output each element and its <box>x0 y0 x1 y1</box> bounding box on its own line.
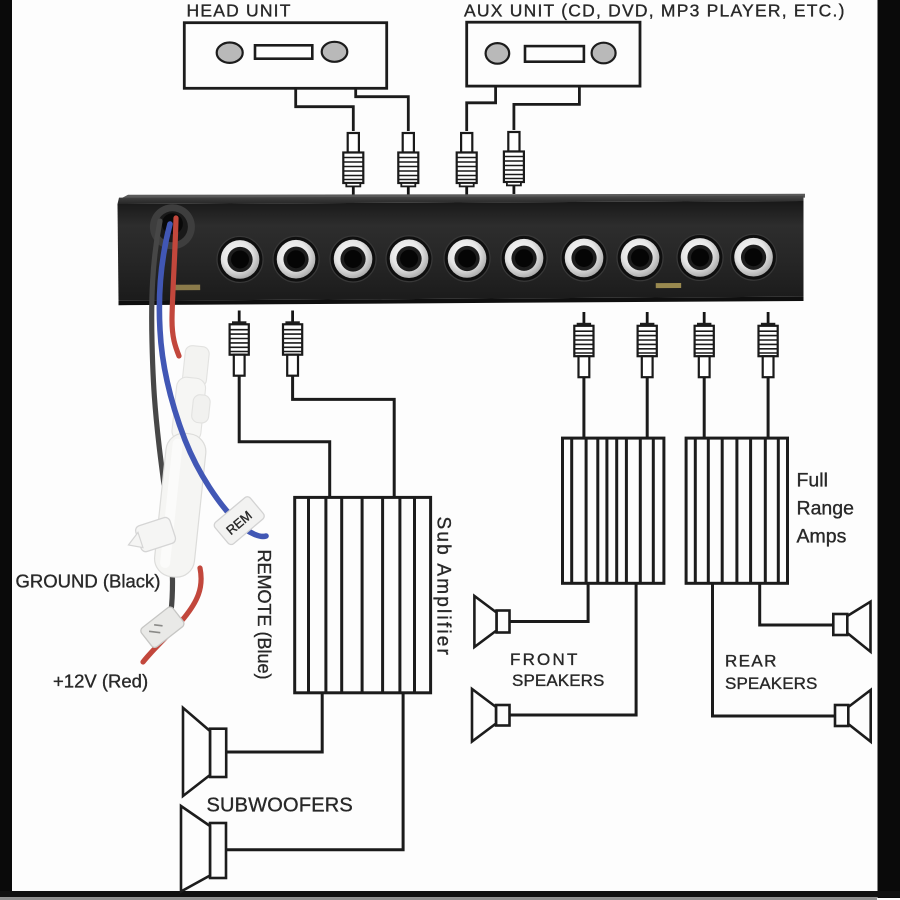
sub amplifier fins <box>309 497 415 692</box>
full range amp R fins <box>695 438 778 583</box>
wire amp R to rear speaker 1 <box>760 583 834 625</box>
wire head-unit to plug P1 <box>296 87 354 131</box>
wire amp R to rear speaker 2 <box>713 583 836 716</box>
RCA plug P5 <box>230 311 249 376</box>
aux unit left knob <box>486 43 510 64</box>
svg-text:HEAD UNIT: HEAD UNIT <box>187 1 292 21</box>
wire sub amp to subwoofer 1 <box>226 693 322 752</box>
RCA plug P6 <box>283 311 302 376</box>
svg-text:REMOTE (Blue): REMOTE (Blue) <box>254 550 274 680</box>
wire plug P8 to full range amp L <box>646 377 649 438</box>
svg-text:SUBWOOFERS: SUBWOOFERS <box>207 795 353 817</box>
RCA plug P1 <box>343 133 363 195</box>
RCA jack J5 <box>444 235 490 281</box>
crimp on +12V wire <box>139 605 185 649</box>
RCA jack J6 <box>501 235 547 281</box>
front speaker 2 <box>472 689 510 742</box>
svg-text:+12V (Red): +12V (Red) <box>53 671 148 692</box>
gold label left <box>173 285 201 291</box>
wire sub amp to subwoofer 2 <box>226 693 403 850</box>
wire head-unit to plug P2 <box>356 87 409 131</box>
head unit slot <box>255 45 312 58</box>
wire plug P9 to full range amp R <box>703 377 706 438</box>
head unit right knob <box>322 42 348 62</box>
wire plug P5 to sub amplifier <box>239 375 330 497</box>
wire plug P10 to full range amp R <box>767 377 770 438</box>
svg-text:REAR: REAR <box>725 652 778 671</box>
front speaker 1 <box>474 596 509 647</box>
rear speaker 1 <box>833 602 870 652</box>
RCA jack J10 <box>730 234 776 280</box>
aux unit box <box>467 22 640 86</box>
RCA jack J2 <box>273 236 319 282</box>
svg-text:Sub Amplifier: Sub Amplifier <box>433 517 454 658</box>
remote wire (blue) <box>159 224 266 536</box>
sub amplifier box <box>295 497 431 692</box>
RCA plug P4 <box>504 132 524 194</box>
RCA jack J9 <box>677 234 723 280</box>
wire plug P7 to full range amp L <box>582 377 585 438</box>
RCA plug P10 <box>759 312 778 377</box>
RCA plug P9 <box>695 312 714 377</box>
RCA plug P8 <box>638 312 657 377</box>
RCA jack J7 <box>561 235 607 281</box>
gold label right <box>656 283 681 288</box>
aux unit right knob <box>592 43 616 64</box>
wire plug P6 to sub amplifier <box>293 375 395 497</box>
subwoofer 1 <box>183 708 226 796</box>
RCA plug P3 <box>457 133 477 195</box>
full range amp R box <box>686 438 787 583</box>
svg-text:Range: Range <box>797 498 854 520</box>
+12V wire (red) lower <box>143 568 201 662</box>
svg-text:AUX UNIT (CD, DVD, MP3 PLAYER,: AUX UNIT (CD, DVD, MP3 PLAYER, ETC.) <box>464 1 846 21</box>
subwoofer 2 <box>181 806 226 892</box>
ground wire (black) <box>152 221 173 622</box>
svg-text:GROUND (Black): GROUND (Black) <box>16 571 161 592</box>
RCA plug P2 <box>398 133 418 195</box>
REM tag on remote wire <box>213 495 266 546</box>
full range amp L fins <box>572 438 654 583</box>
svg-text:FRONT: FRONT <box>510 650 580 669</box>
RCA plug P7 <box>574 312 593 377</box>
+12V wire (red) upper <box>172 218 179 356</box>
svg-text:SPEAKERS: SPEAKERS <box>725 674 817 693</box>
bottom gray edge row <box>0 897 877 900</box>
head unit box <box>184 23 386 89</box>
left black border strip <box>0 0 12 891</box>
full range amp L box <box>563 438 664 583</box>
wire aux-unit to plug P3 <box>467 85 496 131</box>
aux unit slot <box>525 46 584 62</box>
svg-text:SPEAKERS: SPEAKERS <box>512 671 604 690</box>
bottom black border bar <box>0 891 900 897</box>
rear speaker 2 <box>835 690 871 742</box>
wire aux-unit to plug P4 <box>514 85 580 130</box>
head unit left knob <box>217 43 243 63</box>
grommet <box>150 204 195 249</box>
wire amp L to front speaker 1 <box>510 583 589 621</box>
RCA jack J4 <box>386 236 432 282</box>
RCA jack J3 <box>330 236 376 282</box>
right black border strip <box>878 0 900 898</box>
equalizer unit body <box>118 194 806 305</box>
svg-text:Amps: Amps <box>797 526 847 548</box>
RCA jack J8 <box>617 235 663 281</box>
fuse holder <box>153 344 217 579</box>
RCA jack J1 <box>217 236 263 282</box>
wire amp L to front speaker 2 <box>510 583 637 715</box>
clip on ground wire <box>124 516 177 556</box>
svg-text:Full: Full <box>797 470 828 492</box>
